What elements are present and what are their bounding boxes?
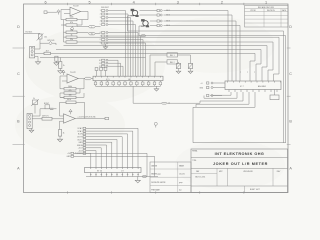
wire R13 gnd [59,136,61,139]
frame column numbers [44,1,267,5]
flag sleeve label [141,35,146,37]
terminal K2 [200,86,219,89]
svg-text:10: 10 [99,60,101,62]
svg-text:INT ELEKTRONIK OHG: INT ELEKTRONIK OHG [215,152,265,156]
power arrow V+ U1 [57,10,60,15]
connector J1 [30,47,35,58]
wire net -15 V [86,151,96,168]
wire R11 [60,93,64,97]
ground G5 [29,130,34,132]
svg-text:NAME: NAME [179,165,185,168]
resistor R13 [59,130,65,137]
wire ref to pot [24,32,40,35]
ground G10 [188,71,193,73]
wire jack J4 tip [150,20,157,22]
wire J2 to R14 to U3 [32,118,42,120]
IC U4 bar [93,76,163,81]
svg-text:BLATT 4077: BLATT 4077 [250,188,260,191]
wire flag L-OUT [77,26,89,28]
wire R3 right [77,31,89,33]
net label -15 V [78,150,85,153]
svg-text:OUT L: OUT L [77,139,82,141]
svg-text:TL072: TL072 [70,72,77,74]
wire net OUT L [86,140,117,168]
svg-text:NORM-PR GEPRF: NORM-PR GEPRF [151,182,165,184]
svg-text:BZX 5V6: BZX 5V6 [48,40,55,42]
svg-text:Ref 615: Ref 615 [26,31,33,33]
capacitor C2 [178,55,193,71]
svg-text:10k: 10k [44,37,47,39]
svg-text:GND A: GND A [77,144,83,147]
jack J4 [141,19,149,27]
wire R8 ground [55,61,57,62]
wire term BU1 to IC [164,11,229,82]
net label +5V B [67,155,74,158]
resistor R12 [66,99,76,104]
svg-text:LM: LM [128,79,131,81]
wire flag R-OUT [95,33,100,35]
net label PHONES [75,152,86,155]
net label N-ON [78,133,86,136]
wire bus H1 [77,37,279,81]
net label VCA 2 [77,127,85,130]
wire U5 bottom nest 4 [196,92,249,107]
frame row letters [17,25,292,170]
terminal K3 [207,94,223,96]
svg-text:4k7: 4k7 [46,51,49,53]
svg-text:2: 2 [221,1,223,5]
svg-text:D: D [17,25,20,29]
wire R10 [60,92,64,94]
svg-text:REL 1: REL 1 [170,55,175,57]
terminal BU1 [157,9,170,12]
wire R20 [274,90,276,96]
wire U4 gnd stub [156,86,158,88]
svg-text:REL 2: REL 2 [170,62,175,64]
svg-text:2: 2 [100,14,101,16]
ground G9 [176,71,181,73]
svg-text:J 8: J 8 [121,171,124,173]
ground G4 [57,139,62,142]
svg-text:AN 6884: AN 6884 [258,85,267,88]
wire U1 output [81,12,88,20]
jack J3 [130,9,138,17]
power arrow V+ U3 [69,109,72,114]
border frame [24,4,289,193]
connector strip X1 [100,7,109,26]
wire bottom collector [284,142,286,144]
wire J2 pin1 [32,109,47,116]
resistor R2 [66,22,77,26]
svg-text:10k: 10k [70,29,73,31]
svg-text:TL072: TL072 [73,6,80,8]
net label OUT R [77,136,86,139]
wire U4 to TP line [133,86,161,103]
svg-text:REVISION: REVISION [267,10,275,12]
IC U5 bottom pin ticks [229,90,277,93]
svg-text:9: 9 [100,43,101,45]
svg-text:BEARB gepr.: BEARB gepr. [151,173,161,176]
net label VCA 1 [77,130,85,133]
svg-text:4: 4 [133,1,135,5]
resistor R8 [55,56,58,61]
svg-text:40.2k: 40.2k [67,99,71,101]
wire net PHONES [86,153,91,167]
flag U2 out [85,77,92,80]
svg-text:47k: 47k [68,90,71,92]
resistor R1 [66,17,77,21]
svg-text:3: 3 [100,17,101,19]
svg-text:L: L [91,26,92,28]
connector J2 [27,114,32,129]
flag L-OUT [89,25,96,28]
IC U5 [225,81,281,90]
wire U5 bottom nest 2 [204,92,237,98]
wire U3 output [75,118,105,120]
relay box RL1 [167,53,178,57]
svg-text:GND: GND [67,156,72,158]
op-amp U1 [70,6,81,16]
wire U2 feedback [76,79,84,89]
wire U5 bottom nest 5 [193,92,255,107]
connector X4 strip [85,168,142,173]
svg-text:REV AND RECORD: REV AND RECORD [258,6,275,9]
op-amp U2 [67,72,78,83]
svg-text:DAT: DAT [196,170,199,173]
ground G6 [135,180,140,183]
svg-text:11: 11 [99,63,101,65]
relay box RL2 [167,60,178,64]
svg-text:GND: GND [79,142,84,144]
svg-text:C: C [289,72,292,76]
svg-text:1: 1 [100,10,101,12]
flag R-OUT [89,32,96,35]
svg-text:ZEICHN NR: ZEICHN NR [243,171,253,173]
wire J1 pins [35,47,40,50]
svg-text:47k: 47k [70,22,73,24]
ground G1 [35,62,40,65]
wire D1 [71,25,73,28]
svg-text:= 1/2 TL072CN IC 8b: = 1/2 TL072CN IC 8b [78,116,96,118]
svg-text:OUT R: OUT R [77,137,83,139]
ground G8 [154,89,159,91]
wire U5 bottom nest 1 [210,92,231,95]
wire net +5V B [74,156,155,176]
resistor R20 [270,95,279,100]
wire X4 bottom rail [86,176,158,178]
svg-text:D: D [289,25,292,29]
resistor R3 [66,29,77,33]
svg-text:100k: 100k [68,86,72,88]
op-amp U3 [64,114,76,123]
wire rail gnd stub [137,177,139,181]
title block small texts [195,170,281,191]
IC U4 bottom resistors [94,81,162,87]
zener D2 [48,40,55,45]
svg-text:1k: 1k [63,65,65,67]
net label GND [79,141,86,144]
ground G7 [103,47,107,49]
svg-text:13.4.81: 13.4.81 [179,174,185,176]
svg-text:6: 6 [44,1,46,5]
IC U4 left stubs [95,68,107,77]
wire U5 bottom nest 3 [200,92,243,101]
wire U2 out to IC2 [91,78,93,80]
wire bus H3 [64,46,268,81]
svg-text:N-ON: N-ON [78,134,83,136]
wire jack J3 sleeve [128,16,284,143]
paper mottle [15,17,285,190]
resistor R5 [66,39,77,43]
wire bus strip2 [108,33,146,77]
wire U3 minus rail [59,121,61,129]
connector strip X2 [100,32,108,45]
svg-text:5k: 5k [33,98,35,100]
capacitor C4 [44,11,57,14]
wire bus strip1 [108,11,136,77]
wire jack J4 ring [150,25,157,27]
resistor R14 [42,115,52,120]
svg-text:3: 3 [177,1,179,5]
svg-text:10k: 10k [68,95,71,97]
svg-text:22k: 22k [70,39,73,41]
net label +5V A [67,152,73,155]
wire pot down [39,39,41,47]
revision table [245,6,289,28]
IC U5 left pins [218,83,225,88]
net label GND A [77,144,86,147]
frame column ticks [13,3,291,194]
resistor R6 [44,51,51,55]
svg-text:C: C [17,72,20,76]
wire net N-ON [86,134,128,168]
svg-text:ST 20: ST 20 [97,171,102,173]
wire left rail cluster1 [64,20,67,42]
net label +15 V [78,147,86,150]
terminal BU2 [157,14,170,17]
resistor R11 [64,95,76,99]
wire term BU3 to IC [164,21,237,81]
resistor R4 [66,34,77,38]
wire J1 row3 [35,56,38,61]
svg-text:TITEL: TITEL [192,160,196,162]
wire net GND A [86,145,107,168]
terminal BU3 [157,20,170,23]
wire R2 [61,24,66,26]
wire U2 output [78,78,84,80]
capacitor C1 [176,62,180,71]
wire U2 inputs [60,75,67,77]
wire net VCA 1 [86,131,133,167]
svg-text:BC547: BC547 [44,103,49,105]
wire bus strip3 [108,60,123,76]
svg-text:8: 8 [100,39,101,41]
wire jack J3 tip [140,10,158,12]
svg-text:5: 5 [100,24,101,26]
wire supply rail [40,57,146,59]
wire term BU4 to IC [164,26,241,82]
svg-text:4: 4 [100,21,101,23]
wire zener [40,42,49,44]
resistor R10 [64,90,76,94]
wire net +15 V [86,148,101,168]
wire J2 pin4 gnd [31,128,33,130]
svg-text:JOKER OUT L/R METER: JOKER OUT L/R METER [213,162,268,166]
net label OUT L [77,139,85,142]
svg-text:VCA 1: VCA 1 [77,130,82,133]
ground G3 [54,63,59,66]
svg-text:DIN 41617: DIN 41617 [101,7,109,9]
resistor R7 [59,62,65,69]
svg-text:GEZ 13.4.81: GEZ 13.4.81 [195,177,205,179]
wire J1 row2 [35,52,44,54]
svg-text:4k99 1%: 4k99 1% [42,115,49,117]
svg-text:+15 V: +15 V [78,148,84,150]
svg-text:100k: 100k [69,17,73,19]
svg-text:1k: 1k [71,34,73,36]
diode D1 [70,27,74,30]
label on rail [142,176,147,178]
svg-text:MST: MST [219,171,223,173]
wire strip grounds [105,44,106,47]
svg-text:1k: 1k [63,133,65,135]
wire jack J3 ring [140,14,158,16]
wire net VCA 2 [86,128,138,167]
wire bus H5 [64,53,256,81]
svg-text:IC 5: IC 5 [106,79,109,81]
wire term BU2 to IC [164,15,233,81]
svg-text:LTR NR: LTR NR [250,10,256,12]
title block [191,149,288,193]
capacitor C5 [47,108,57,109]
ground G2 [58,71,63,74]
wire R12 loop [60,102,67,116]
flag TP1 [162,102,171,105]
power arrow V+ U2 [62,70,65,75]
svg-text:FREIGABE: FREIGABE [151,189,160,192]
wire bus H4 [56,50,261,82]
wire U3 inputs2 [60,115,64,117]
wire U4 bottom rail [96,85,161,87]
trimmer P1 [37,33,47,40]
node mark [154,122,157,127]
terminal K1 [201,82,219,85]
X4 bottom pins [90,173,139,177]
IC U4 right stubs [150,55,167,76]
svg-text:VCA 2: VCA 2 [77,127,82,130]
terminal BU4 [157,24,170,27]
wire R7 [59,58,61,62]
IC U5 top pin labels [240,72,255,74]
resistor R9 [64,86,76,90]
wire net +5V A [74,153,147,176]
trimmer P2 [31,98,39,113]
wire net OUT R [86,137,122,168]
wire U1 inputs [62,9,70,11]
transistor Q1 [44,103,50,109]
wire bus H2 [77,42,273,81]
svg-text:6: 6 [100,32,101,34]
svg-text:5: 5 [89,1,91,5]
svg-text:gepr: gepr [179,181,183,184]
wire R1 feedback [77,19,88,21]
approval table [150,162,191,193]
connector strip X3 [99,59,108,68]
wire net GND [86,142,112,167]
flag U3 out [105,117,109,119]
svg-text:1: 1 [265,1,267,5]
wire TP line right [167,101,200,103]
wire jack J4 sleeve [139,26,286,143]
